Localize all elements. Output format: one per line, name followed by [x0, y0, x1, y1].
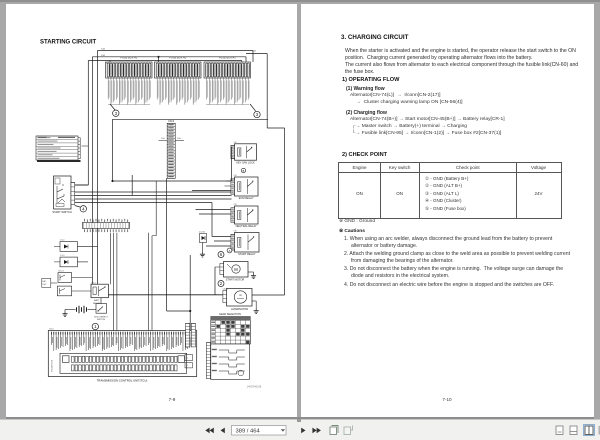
- wire from terminal block: [82, 145, 89, 147]
- wire D1-4 out: [77, 245, 97, 247]
- ground start motor: [248, 271, 254, 273]
- wire alternator B+ to right bus: [252, 294, 285, 296]
- junction dot mid: [111, 180, 113, 182]
- disconnect switch: [94, 304, 108, 322]
- fuse box FB1: [106, 56, 153, 105]
- wires into ecm relay: [226, 180, 231, 182]
- start motor: [220, 262, 248, 282]
- left pin strip of gear box: [206, 343, 210, 379]
- junction dot on rail 2: [157, 56, 159, 58]
- gear selector switch box: [211, 344, 250, 380]
- wire CN9 bottom: [166, 178, 168, 311]
- wire batt relay vertical taps: [95, 284, 97, 288]
- wires into neutral relay: [196, 209, 231, 211]
- svg-text:389 / 464: 389 / 464: [236, 428, 261, 434]
- fuse box FB2: [155, 56, 202, 105]
- fuse box bottom rail ticks right: [206, 104, 249, 106]
- wire into inhibit relay: [224, 180, 231, 182]
- page bottom shadow: [6, 417, 594, 420]
- start switch box: [54, 176, 72, 209]
- wire right fusible-link loop: [246, 53, 267, 55]
- relay U-inhibit: [231, 142, 257, 164]
- alternator: [223, 288, 253, 311]
- wire D1-3 out: [77, 261, 92, 263]
- connector strip CN-3b: [191, 323, 195, 347]
- wire mid bus down from fuse area: [112, 119, 114, 181]
- connector strip CN-3a: [186, 323, 190, 347]
- battery relay CR-1: [91, 282, 108, 305]
- small boxes below connectors: [185, 355, 192, 361]
- wire left bus B: [91, 57, 93, 285]
- diode D1-5B: [199, 232, 207, 243]
- wire x166 junction: [189, 310, 191, 312]
- fuse box bottom rail ticks left: [108, 104, 150, 106]
- relay CR-23 ECM: [231, 175, 258, 200]
- wire battery to disconnect: [88, 309, 97, 311]
- wire top rail 2: [92, 56, 246, 58]
- node B circle: [241, 168, 245, 172]
- wire sw ACC: [75, 191, 93, 193]
- connector strip CN-1: [82, 219, 129, 232]
- diode pack D1-3: [54, 255, 77, 267]
- right page: [301, 4, 594, 417]
- wires into start relay: [212, 236, 231, 238]
- wire top rail 3: [88, 60, 242, 62]
- left page: [6, 4, 297, 417]
- ground under diode: [202, 243, 204, 253]
- wire battery left to ground: [65, 309, 76, 311]
- wires CR boxes: [72, 277, 93, 279]
- wire horiz from CN strip: [131, 175, 133, 195]
- node 1: [92, 323, 98, 329]
- start switch pin column: [71, 183, 75, 205]
- wire sw B: [75, 184, 89, 186]
- node 4: [75, 206, 80, 208]
- wire x156 vertical: [155, 181, 157, 236]
- wire top rail 1: [98, 50, 254, 52]
- wire y202 drop: [211, 203, 213, 237]
- wire batt relay to start motor rail: [108, 294, 222, 296]
- node 3 right: [250, 104, 256, 111]
- node 6: [218, 252, 224, 258]
- battery symbol: [77, 306, 87, 313]
- wire diode left: [156, 235, 199, 237]
- lamp box: [42, 278, 51, 287]
- relay CR-5 start: [231, 231, 259, 257]
- ground alternator: [252, 300, 256, 302]
- wire sw C1: [75, 195, 232, 197]
- node 2: [218, 281, 224, 287]
- wire sw R1: [75, 202, 212, 204]
- connector terminal block CN-56: [36, 136, 81, 162]
- wire CN9 left pin: [159, 139, 168, 141]
- wires CN-1 drops: [113, 233, 115, 331]
- gear selection table: [211, 313, 251, 344]
- TCU transmission control unit: [48, 328, 196, 382]
- node 3 left: [110, 104, 115, 110]
- wire horiz 181 to relays: [113, 180, 232, 182]
- wire drop x152: [151, 236, 153, 331]
- wire left bus C: [97, 51, 99, 289]
- relay CR-35 neutral: [231, 204, 258, 228]
- wire CN9 right pin: [175, 139, 184, 141]
- wire drop x148: [147, 203, 149, 331]
- node A: [227, 248, 232, 253]
- wire sw C2: [75, 198, 232, 200]
- wire stubs into fuse boxes: [252, 51, 254, 63]
- relay CR-35b: [57, 286, 71, 296]
- wire left bus A: [87, 61, 89, 186]
- fuse box FB3: [204, 56, 251, 105]
- left page number: [162, 397, 182, 402]
- wire y246 from 206: [205, 203, 207, 247]
- relay CR-21: [58, 271, 72, 283]
- viewer chrome background: [0, 0, 600, 2]
- connector strip CN-9: [167, 119, 175, 178]
- diode pack D1-4: [54, 240, 77, 252]
